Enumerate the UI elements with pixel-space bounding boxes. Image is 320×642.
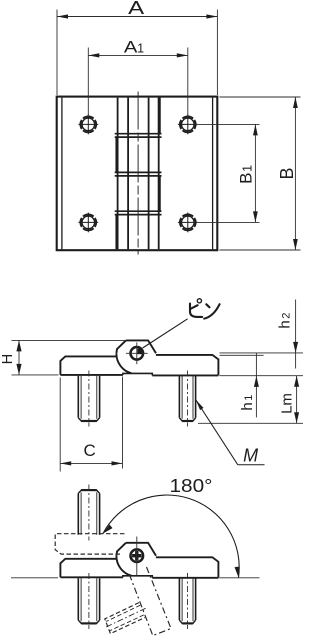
plate-top extension line bbox=[220, 354, 264, 356]
pin ring (middle view) bbox=[131, 347, 144, 360]
knuckle curl edge section1 right bbox=[158, 98, 161, 134]
screw hole top-left bbox=[78, 115, 98, 135]
left stud (middle view) bbox=[78, 371, 99, 427]
dimension A1 bbox=[88, 48, 188, 118]
knuckle divider 2 lower line bbox=[115, 175, 162, 177]
dimension h1 bbox=[254, 353, 259, 418]
rotating leaf mid-position (phantom, dash-dot) bbox=[104, 567, 171, 636]
dimension B1 bbox=[198, 124, 260, 222]
dimension H bbox=[12, 340, 126, 375]
svg-text:180°: 180° bbox=[170, 476, 213, 496]
folded stud (up) bbox=[78, 485, 99, 541]
knuckle barrel vertical line 1 bbox=[117, 98, 119, 250]
knuckle curl edge section2 left bbox=[115, 137, 118, 172]
label B (rotated) bbox=[277, 167, 297, 179]
label h1 (rotated) bbox=[239, 395, 256, 411]
svg-text:B: B bbox=[277, 167, 297, 179]
svg-text:A: A bbox=[128, 0, 144, 18]
knuckle barrel vertical line 3 bbox=[148, 98, 150, 250]
plate right inner edge line bbox=[212, 98, 214, 250]
dimension C bbox=[60, 377, 122, 472]
screw hole bottom-right bbox=[178, 213, 198, 233]
mounting surface line left bbox=[11, 577, 58, 579]
pin centerline (top view) bbox=[137, 92, 139, 255]
svg-text:2: 2 bbox=[280, 313, 292, 319]
svg-text:1: 1 bbox=[243, 395, 255, 401]
knuckle divider 1 lower line bbox=[115, 136, 162, 138]
left leaf bar bbox=[60, 356, 116, 375]
hinge plate outline bbox=[57, 97, 218, 251]
knuckle divider 3 upper line bbox=[115, 210, 162, 212]
svg-text:1: 1 bbox=[241, 165, 255, 172]
label B1 (rotated) bbox=[237, 165, 256, 184]
dimension Lm bbox=[294, 376, 299, 424]
phantom stud thread lines bbox=[106, 605, 140, 621]
dimension A bbox=[57, 10, 217, 96]
label H (rotated) bbox=[0, 354, 16, 364]
pin bold cross bbox=[135, 551, 138, 560]
mounting surface line right bbox=[220, 577, 260, 579]
right stud centerline bbox=[187, 371, 189, 427]
dimension h2 bbox=[293, 300, 298, 369]
svg-text:h: h bbox=[239, 402, 256, 410]
dimension B bbox=[219, 97, 300, 250]
knuckle divider 1 upper line bbox=[115, 133, 162, 135]
knuckle curl edge section3 right bbox=[158, 176, 161, 211]
folded leaf (phantom, dashed) bbox=[55, 534, 126, 554]
knuckle curl edge section4 left bbox=[115, 215, 118, 249]
knuckle barrel vertical line 2 bbox=[127, 98, 129, 250]
svg-text:B: B bbox=[237, 173, 256, 184]
right stud (bottom view) bbox=[179, 573, 195, 629]
plate left inner edge line bbox=[61, 98, 63, 250]
pin-level extension line bbox=[220, 352, 304, 354]
phantom stud centerline bbox=[104, 608, 146, 628]
label M with leader bbox=[196, 400, 265, 466]
pin leader line bbox=[143, 319, 188, 348]
screw hole bottom-left bbox=[78, 213, 98, 233]
svg-text:h: h bbox=[276, 320, 293, 328]
label pin (Japanese katakana drawn as paths) bbox=[190, 299, 220, 319]
knuckle divider 2 upper line bbox=[115, 171, 162, 173]
svg-text:1: 1 bbox=[137, 42, 144, 56]
knuckle bottom edge bbox=[123, 373, 152, 375]
left stud (bottom view) bbox=[78, 573, 99, 629]
fixed right leaf bar bbox=[156, 557, 219, 578]
knuckle bottom edge (bottom view) bbox=[123, 576, 152, 578]
fixed left leaf bar bbox=[60, 559, 116, 578]
stud-bottom extension line bbox=[198, 422, 303, 424]
svg-text:C: C bbox=[83, 441, 95, 460]
right stud (middle view) bbox=[179, 371, 195, 427]
plate-bottom extension line bbox=[220, 375, 304, 377]
phantom stud outline bbox=[105, 603, 145, 634]
pin crosshair bbox=[126, 352, 148, 354]
180 degree arc bbox=[103, 495, 239, 577]
pin slot square bbox=[137, 349, 142, 355]
screw hole top-right bbox=[178, 115, 198, 135]
knuckle divider 3 lower line bbox=[115, 214, 162, 216]
label h2 (rotated) bbox=[276, 313, 293, 329]
pin vertical centerline (bottom view) bbox=[136, 537, 138, 576]
screw holes bbox=[78, 115, 197, 233]
right leaf bar bbox=[156, 355, 219, 376]
svg-text:Lm: Lm bbox=[278, 393, 295, 414]
svg-text:A: A bbox=[124, 38, 138, 57]
label Lm (rotated) bbox=[278, 393, 295, 414]
knuckle outline bbox=[126, 340, 156, 353]
svg-text:M: M bbox=[243, 445, 258, 465]
pin ring (bottom view) bbox=[131, 549, 144, 562]
knuckle barrel vertical line 4 bbox=[158, 98, 160, 250]
knuckle outline (bottom view) bbox=[126, 543, 156, 556]
svg-text:H: H bbox=[0, 354, 16, 364]
left stud centerline bbox=[88, 371, 90, 427]
